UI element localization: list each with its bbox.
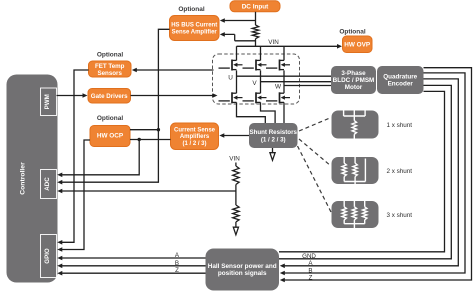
svg-text:Quadrature: Quadrature xyxy=(383,74,417,81)
svg-text:Controller: Controller xyxy=(20,162,27,195)
svg-text:Amplifiers: Amplifiers xyxy=(180,134,210,140)
Shunt Resistors block xyxy=(249,123,298,148)
transistor Q3 (V high-side) xyxy=(243,60,267,71)
wire phase U to motor xyxy=(237,75,332,77)
Quadrature Encoder block xyxy=(377,66,424,94)
svg-text:(1 / 2 / 3): (1 / 2 / 3) xyxy=(182,141,206,147)
wire bridge temp to FET Temp Sensors xyxy=(135,69,214,71)
wire divider tap to ADC xyxy=(61,185,236,206)
svg-text:DC Input: DC Input xyxy=(242,4,269,11)
wire hall A to GPIO xyxy=(61,257,206,259)
svg-text:ADC: ADC xyxy=(44,177,51,191)
svg-text:3-Phase: 3-Phase xyxy=(341,70,366,77)
wire V phase column xyxy=(260,70,262,93)
svg-text:Sense Amplifier: Sense Amplifier xyxy=(172,30,218,36)
junction dot HS-OCP xyxy=(157,128,160,131)
wire dashed link to 2 x shunt xyxy=(299,139,331,166)
resistor divider top xyxy=(235,163,237,167)
wire encoder line 5 (inner) xyxy=(279,91,445,251)
wire encoder line 1 (outer) to Z xyxy=(283,68,472,280)
HW OVP block xyxy=(343,36,373,53)
wire VIN rail to HW OVP xyxy=(237,45,339,47)
wire HS BUS amp to HW OCP and ADC xyxy=(61,29,170,182)
transistor Q5 (W high-side) xyxy=(266,60,290,71)
wire CSA tee down to ADC xyxy=(61,140,139,175)
Gate Drivers block xyxy=(88,89,131,104)
wire tap below shunt to HS BUS amp xyxy=(224,34,256,40)
wire hall Z to GPIO xyxy=(61,272,206,274)
ground arrow (shunt resistors) xyxy=(272,148,274,153)
svg-text:V: V xyxy=(252,80,257,87)
wire DC input down + HS shunt resistor xyxy=(255,12,257,25)
wire VIN rail feeds bridge columns xyxy=(237,46,285,60)
svg-text:HW OVP: HW OVP xyxy=(344,42,371,49)
svg-text:Sensors: Sensors xyxy=(97,70,122,77)
wire tee into HW OCP xyxy=(130,129,158,131)
controller block xyxy=(7,75,58,283)
svg-text:VIN: VIN xyxy=(229,156,240,163)
2 x shunt block xyxy=(332,157,379,189)
wire hall B to GPIO xyxy=(61,265,206,267)
HS BUS Current Sense Amplifier block xyxy=(170,16,220,41)
svg-text:GND: GND xyxy=(302,253,316,260)
svg-text:Optional: Optional xyxy=(178,6,205,13)
svg-text:2 x shunt: 2 x shunt xyxy=(387,168,413,175)
1 x shunt block xyxy=(332,111,379,141)
svg-text:HW OCP: HW OCP xyxy=(97,133,124,140)
svg-text:FET Temp: FET Temp xyxy=(95,63,125,70)
svg-text:Optional: Optional xyxy=(97,52,124,59)
wire W phase column xyxy=(283,70,285,93)
wire phase W to motor xyxy=(284,85,331,87)
svg-text:PWM: PWM xyxy=(44,94,51,109)
wire low-side sources to shunt resistors xyxy=(237,102,266,123)
transistor Q4 (V low-side) xyxy=(243,92,267,103)
wire encoder line 4 to GND xyxy=(279,85,451,258)
svg-text:1 x shunt: 1 x shunt xyxy=(387,122,413,129)
svg-text:Optional: Optional xyxy=(97,115,124,122)
junction dot CSA-ADC xyxy=(138,138,141,141)
Current Sense Amplifiers block xyxy=(171,123,219,150)
FET bridge dashed enclosure xyxy=(213,54,300,104)
svg-text:B: B xyxy=(175,260,179,267)
svg-text:GPIO: GPIO xyxy=(44,248,51,264)
wire shunt resistors to CSA xyxy=(223,135,250,137)
svg-text:Hall Sensor power and: Hall Sensor power and xyxy=(208,263,277,270)
wire HW OCP to GPIO xyxy=(61,140,90,250)
DC Input block xyxy=(230,1,280,12)
svg-text:Motor: Motor xyxy=(345,84,363,91)
svg-text:Z: Z xyxy=(175,267,179,274)
svg-text:BLDC / PMSM: BLDC / PMSM xyxy=(333,77,375,84)
resistor divider bottom xyxy=(233,205,239,222)
Hall Sensor power and position signals block xyxy=(206,249,280,291)
transistor Q1 (U high-side) xyxy=(219,60,243,71)
svg-text:Current Sense: Current Sense xyxy=(174,127,216,133)
resistor HS shunt xyxy=(252,25,258,39)
svg-text:Optional: Optional xyxy=(339,29,366,36)
svg-text:B: B xyxy=(308,267,312,274)
svg-text:Z: Z xyxy=(309,274,313,281)
wire Gate Drivers to bridge xyxy=(131,95,214,97)
wire CSA to HW OCP xyxy=(130,139,171,141)
transistor Q2 (U low-side) xyxy=(219,92,243,103)
wire encoder line 2 to B xyxy=(283,73,465,273)
svg-text:Encoder: Encoder xyxy=(388,81,414,88)
ADC sub-block xyxy=(41,170,57,199)
wire FET Temp Sensors to GPIO xyxy=(61,70,89,242)
wire tap above shunt to HS BUS amp xyxy=(224,20,256,22)
ground arrow (divider) xyxy=(235,222,237,227)
svg-text:Shunt Resistors: Shunt Resistors xyxy=(249,129,297,136)
wire encoder line 3 to A xyxy=(283,79,458,266)
svg-text:U: U xyxy=(228,75,233,82)
wire dashed link to 3 x shunt xyxy=(298,146,332,212)
wire phase V to motor xyxy=(261,81,332,83)
wire PWM to Gate Drivers xyxy=(57,95,85,97)
svg-text:VIN: VIN xyxy=(268,39,279,46)
HW OCP block xyxy=(90,126,130,147)
wire U phase column xyxy=(236,70,238,93)
svg-text:position signals: position signals xyxy=(218,270,267,277)
3 x shunt block xyxy=(332,201,379,231)
svg-text:W: W xyxy=(275,84,282,91)
wire dashed link to 1 x shunt xyxy=(299,118,331,132)
svg-text:Gate Drivers: Gate Drivers xyxy=(91,93,128,100)
svg-text:HS BUS Current: HS BUS Current xyxy=(171,23,217,29)
svg-text:(1 / 2 / 3): (1 / 2 / 3) xyxy=(261,136,286,143)
FET Temp Sensors block xyxy=(89,61,132,77)
GPIO sub-block xyxy=(41,235,57,278)
3-Phase BLDC/PMSM Motor block xyxy=(331,66,376,94)
PWM sub-block xyxy=(41,88,57,116)
transistor Q6 (W low-side) xyxy=(266,92,290,103)
svg-text:3 x shunt: 3 x shunt xyxy=(387,212,413,219)
